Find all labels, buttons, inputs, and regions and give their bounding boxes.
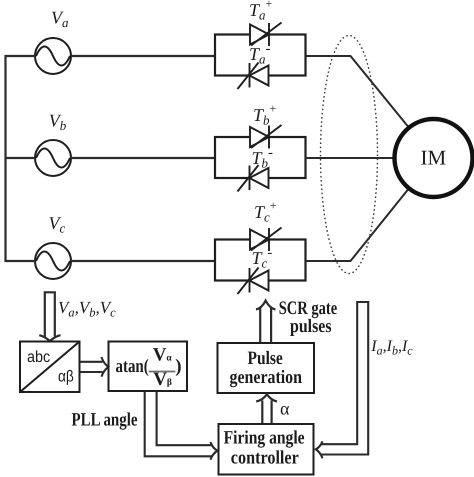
- arrow: current feedback Ia Ib Ic: [316, 302, 368, 458]
- svg-text:controller: controller: [231, 447, 299, 468]
- svg-text:pulses: pulses: [290, 316, 332, 337]
- fraction bar: [149, 371, 176, 373]
- wire: [71, 260, 215, 262]
- thyristor pair box Tb: [215, 137, 306, 178]
- source Va: [35, 38, 71, 74]
- thyristor pair box Tc: [215, 240, 306, 281]
- arrow: PLL angle to firing controller: [145, 392, 218, 460]
- svg-text:generation: generation: [230, 367, 303, 388]
- svg-text:abc: abc: [27, 349, 50, 366]
- source Vb: [35, 140, 71, 176]
- wire: [306, 188, 410, 261]
- svg-text:Va,Vb,Vc: Va,Vb,Vc: [58, 298, 116, 320]
- block atan: [109, 342, 188, 392]
- thyristor Tb+: [250, 125, 282, 149]
- svg-text:Pulse: Pulse: [248, 348, 283, 369]
- thyristor Tc+: [250, 228, 282, 252]
- svg-text:): ): [175, 356, 181, 377]
- wire: left bus: [4, 55, 6, 262]
- motor IM: [395, 119, 473, 197]
- wire: [5, 55, 36, 57]
- block pulse generation: [218, 343, 315, 393]
- arrow: alpha firing to pulse: [256, 394, 277, 424]
- wire: [71, 55, 215, 57]
- thyristor Tb-: [238, 165, 269, 192]
- svg-text:αβ: αβ: [58, 369, 74, 386]
- block firing angle controller: [219, 424, 314, 475]
- wire: [5, 157, 36, 159]
- svg-text:α: α: [280, 399, 290, 419]
- svg-text:IM: IM: [421, 146, 447, 170]
- arrow: Va Vb Vc feed to abc block: [39, 292, 60, 341]
- source Vc: [35, 243, 71, 279]
- thyristor Ta-: [238, 63, 269, 90]
- thyristor Ta+: [250, 23, 282, 47]
- thyristor pair box Ta: [215, 35, 306, 76]
- motor cable ellipse: [321, 36, 378, 274]
- wire: [306, 157, 396, 159]
- svg-text:Firing angle: Firing angle: [224, 428, 305, 449]
- block abc-alphabeta: [20, 342, 80, 393]
- arrow: abc to atan: [81, 357, 109, 377]
- svg-text:atan(: atan(: [116, 356, 149, 377]
- svg-text:PLL angle: PLL angle: [72, 410, 138, 431]
- thyristor Tc-: [238, 268, 269, 295]
- arrow: SCR gate pulses: [256, 301, 275, 343]
- wire: [306, 56, 410, 128]
- wire: [5, 260, 36, 262]
- wire: [71, 157, 215, 159]
